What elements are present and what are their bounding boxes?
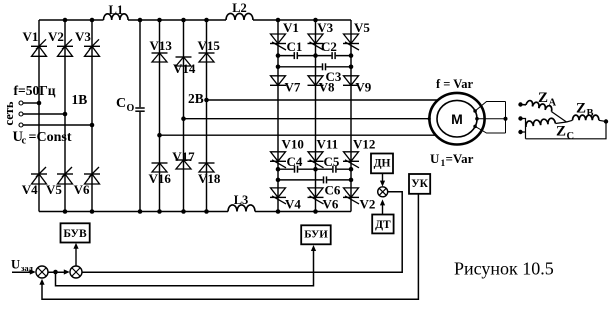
junction top bus 6 [204,18,209,23]
wire phase A input [23,102,39,104]
svg-text:c: c [22,136,27,147]
junction bottom bus 2 [90,209,95,214]
node rotor bar [504,117,508,121]
label Uc=Const [13,129,72,147]
svg-text:C6: C6 [325,183,341,198]
wire phase C input [23,124,92,126]
diode V16 [149,163,172,186]
inductor ZA [521,90,567,122]
block BUI [301,225,331,244]
caption [454,259,554,279]
node load terminal 2 [518,116,522,120]
junction top bus 4 [157,18,162,23]
node phase B [63,112,68,117]
node C6 b [349,178,354,183]
thyristor V4 [22,167,47,197]
svg-text:V15: V15 [198,38,221,53]
svg-text:V6: V6 [323,197,339,212]
node C3 a [276,65,281,70]
wire UK to summer 1 [39,194,418,299]
wire C6 row [278,179,351,181]
node C row 2c [349,167,354,172]
junction top bus 3 [138,18,143,23]
svg-text:f = Var: f = Var [436,77,473,91]
thyristor V3 (inverter) [308,20,334,50]
node C3 b [349,65,354,70]
svg-text:V9: V9 [355,80,371,95]
wire load terminal 3 stub [521,131,526,133]
wire load bottom return [526,122,607,139]
svg-text:V1: V1 [283,20,299,35]
svg-text:ДТ: ДТ [375,219,391,231]
node C row 1a [276,53,281,58]
svg-text:V3: V3 [317,20,333,35]
wire phase line 2 [184,118,431,120]
svg-text:C1: C1 [287,39,303,54]
svg-text:V14: V14 [173,61,196,76]
svg-text:V2: V2 [48,29,64,44]
svg-text:=Var: =Var [446,151,474,166]
svg-text:C4: C4 [287,154,303,169]
node phase line 3 tap [157,133,162,138]
thyristor V4 (inverter) [270,188,301,212]
label Uzad [11,258,34,274]
inductor L1 [104,3,129,20]
motor M rotor [437,100,477,137]
svg-text:Z: Z [576,101,586,117]
junction bottom bus 4 [157,209,162,214]
capacitor C4 [287,154,303,174]
label 1B [72,92,88,107]
svg-text:УК: УК [411,178,428,190]
junction top bus 7 [276,18,281,23]
svg-text:O: O [127,103,135,114]
wire rectifier column 1 [38,20,40,212]
svg-text:Z: Z [538,90,548,106]
wire bridge-2 column 3 [206,20,208,212]
wire rotor link 2 [477,118,506,120]
capacitor C2 [321,39,337,60]
node load terminal 1 [518,102,522,106]
label M [451,111,463,127]
wire junction link [48,269,70,274]
thyristor V2 [48,29,73,56]
svg-text:C5: C5 [324,154,340,169]
block DN [371,154,393,174]
node load terminal 3 [518,130,522,134]
junction bottom bus 3 [138,209,143,214]
wire DT to multiplier [380,199,385,214]
wire rectifier column 2 [64,20,66,212]
svg-text:V12: V12 [353,137,375,152]
diode V15 [198,38,221,62]
junction top bus 5 [181,18,186,23]
diode V14 [173,57,196,76]
junction top bus 2 [90,18,95,23]
wire tap to BUI [56,245,317,286]
wire rectifier column 3 [91,20,93,212]
svg-text:БУВ: БУВ [63,228,87,240]
node phase A [37,101,42,106]
label f=50Hz [14,83,56,98]
svg-text:V11: V11 [317,137,339,152]
junction bottom bus 1 [63,209,68,214]
node rotor tap 1 [473,109,477,113]
thyristor V3 [75,29,100,56]
diode V18 [198,163,221,186]
diode V7 [270,76,301,95]
multiplier node [378,187,388,197]
block DT [372,215,393,234]
inductor ZB [567,101,607,123]
node C row 1b [313,53,318,58]
svg-text:U: U [430,151,440,166]
svg-text:V1: V1 [23,29,39,44]
node rotor tap 3 [473,125,477,129]
thyristor V10 [270,137,304,168]
svg-text:L1: L1 [109,3,124,17]
junction bottom bus 6 [204,209,209,214]
svg-text:A: A [549,98,557,109]
thyristor V1 [23,29,48,56]
svg-text:V3: V3 [75,29,91,44]
svg-text:Z: Z [556,124,566,140]
svg-text:C2: C2 [321,39,337,54]
junction top bus 1 [63,18,68,23]
svg-text:V2: V2 [360,197,376,212]
svg-text:Рисунок 10.5: Рисунок 10.5 [454,259,554,279]
thyristor V6 [74,167,100,197]
label set (mains), vertical [2,101,16,125]
thyristor V5 (inverter) [343,20,370,50]
svg-text:V16: V16 [149,171,172,186]
block BUV [61,223,90,242]
svg-text:2В: 2В [188,91,204,106]
diode V8 [308,76,335,95]
thyristor V11 [308,137,339,168]
svg-text:сеть: сеть [2,101,16,125]
svg-text:V5: V5 [354,20,370,35]
svg-text:B: B [587,108,594,119]
wire inverter column 3 [350,20,352,212]
svg-text:V5: V5 [46,182,62,197]
wire load terminal 2 stub [521,119,526,139]
svg-text:1В: 1В [72,92,88,107]
wire bridge-2 column 1 [159,20,161,212]
wire to BUV [73,243,78,266]
summing junction 2 [70,266,82,278]
capacitor C5 [324,154,340,174]
node phase C [90,123,95,128]
svg-text:L3: L3 [234,193,249,207]
svg-text:V6: V6 [74,182,90,197]
node C row 1c [349,53,354,58]
svg-text:БУИ: БУИ [304,229,328,241]
capacitor CO [116,96,146,114]
wire C1-C2 row [278,55,351,57]
node C6 a [276,178,281,183]
label U1=Var [430,151,474,169]
thyristor V5 [46,167,73,197]
svg-text:V7: V7 [285,80,301,95]
terminal phase C [19,123,23,127]
svg-text:f=50Гц: f=50Гц [14,83,56,98]
junction top bus 8 [313,18,318,23]
svg-text:C: C [567,131,575,142]
label 2B [188,91,204,106]
junction bottom bus 7 [276,209,281,214]
thyristor V6 (inverter) [308,188,339,212]
svg-text:V10: V10 [282,137,304,152]
wire C4-C5 row [278,168,351,170]
node C row 2a [276,167,281,172]
diode V9 [343,76,372,95]
svg-text:V4: V4 [22,182,38,197]
wire rotor shorting bar [505,102,507,134]
terminal phase B [19,112,23,116]
svg-text:V18: V18 [198,171,221,186]
svg-text:V13: V13 [150,38,173,53]
wire phase B input [23,113,65,115]
junction bottom bus 5 [181,209,186,214]
wire top DC bus [39,19,351,21]
node rotor tap 2 [475,117,479,121]
svg-text:L2: L2 [232,1,247,15]
svg-text:U: U [11,258,20,272]
svg-text:V8: V8 [319,80,335,95]
node phase line 2 tap [181,116,186,121]
diode V13 [150,38,173,62]
svg-text:=Const: =Const [29,130,72,145]
label f=Var [436,77,473,91]
wire DN to multiplier [380,173,385,186]
node C row 2b [313,167,318,172]
wire filter capacitor column [139,20,141,212]
wire rotor link 3 [475,126,505,133]
node phase line 1 tap [204,98,209,103]
inductor L2 [226,1,253,20]
svg-text:ДН: ДН [374,158,391,170]
wire bridge-2 column 2 [183,20,185,212]
junction bottom bus 8 [313,209,318,214]
summing junction 1 [36,266,48,278]
block UK [409,174,430,194]
capacitor C3 [322,62,342,84]
thyristor V2 (inverter) [343,188,375,212]
thyristor V1 (inverter) [270,20,299,50]
wire phase line 1 [207,99,440,101]
wire C3 row [278,66,351,68]
capacitor C1 [287,39,303,60]
inductor L3 [228,193,255,212]
svg-text:V17: V17 [172,149,195,164]
wire bottom DC bus [39,211,351,213]
wire rotor link 1 [475,102,505,112]
node stator input [428,117,431,120]
wire Uzad input [12,269,36,274]
svg-text:M: M [451,111,463,127]
wire inverter column 2 [315,20,317,212]
svg-text:C: C [116,96,126,111]
wire phase line 3 [160,134,437,136]
inductor ZC [525,118,574,142]
terminal phase A [19,101,23,105]
wire multiplier to summer 2 [82,192,402,272]
capacitor C6 [323,175,341,197]
diode V17 [172,149,195,169]
node load right [604,119,608,123]
node feedback tap [53,270,58,275]
motor M stator [429,93,484,145]
thyristor V12 [343,137,375,168]
wire inverter column 1 [277,20,279,212]
svg-text:V4: V4 [285,197,301,212]
